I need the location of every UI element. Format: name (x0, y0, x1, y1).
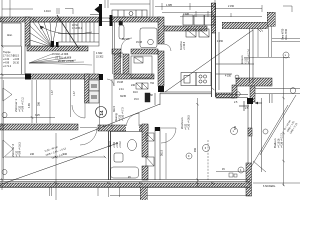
fan leader lines stairhall (29, 54, 92, 65)
wc door (121, 38, 132, 49)
svg-text:Bad: Bad (108, 141, 112, 147)
svg-text:4 150: 4 150 (225, 75, 232, 78)
svg-text:26.10: 26.10 (13, 62, 20, 65)
svg-text:4 150: 4 150 (217, 40, 224, 43)
kitchen counter top (112, 10, 147, 17)
balcony window wohnen east (247, 104, 249, 163)
bad fixtures (111, 83, 155, 178)
interior dim lines (3, 79, 300, 200)
svg-text:Essen: Essen (240, 55, 244, 64)
svg-text:2 945: 2 945 (183, 13, 190, 16)
svg-text:+4.72 +4 17.4: +4.72 +4 17.4 (248, 49, 251, 64)
svg-text:1.47: 1.47 (51, 90, 54, 95)
essen east window (249, 27, 251, 83)
top-left room (2, 23, 25, 74)
gang/wohnen wall lines (154, 93, 156, 105)
zimmer1 door (84, 103, 86, 118)
svg-text:+4.30 +4 26.5: +4.30 +4 26.5 (188, 115, 191, 130)
section marker bar (99, 4, 102, 26)
svg-text:14: 14 (99, 110, 104, 116)
wall zimmer1/zimmer2 hatched (0, 124, 78, 130)
bad east wall hatched (142, 124, 148, 157)
svg-text:4.94.0: 4.94.0 (44, 10, 51, 13)
svg-text:Balkon: Balkon (273, 138, 277, 148)
room labels (11, 41, 277, 157)
room sub-labels (16, 28, 289, 157)
svg-text:25 301 +3 N05: 25 301 +3 N05 (58, 60, 74, 63)
staircase (30, 15, 99, 49)
right side verticals (268, 26, 270, 57)
svg-text:Abst.: Abst. (7, 34, 13, 37)
zimmer2 door (80, 127, 97, 129)
wall closet nook vertical (85, 74, 90, 103)
dimension lines edges (2, 0, 300, 190)
bottom exterior wall windows (0, 179, 250, 181)
wall top-right hatched (163, 26, 207, 31)
svg-text:3.25: 3.25 (35, 114, 40, 117)
svg-text:1.47: 1.47 (73, 91, 76, 96)
long diagonals (2, 30, 253, 184)
svg-text:240: 240 (131, 84, 136, 87)
wall below wc hatched (112, 49, 121, 54)
wall stair left vertical hatched (25, 17, 30, 46)
svg-text:15 302: 15 302 (96, 56, 104, 59)
svg-text:545: 545 (234, 125, 237, 130)
balcony diagonals (251, 89, 300, 173)
top right dim chain (214, 0, 216, 10)
svg-text:Wohnen: Wohnen (180, 117, 184, 129)
wall mid horizontal (stairhall/zimmer1) (0, 74, 28, 76)
svg-text:+4.99 +4 16.3: +4.99 +4 16.3 (19, 142, 22, 157)
kueche door (164, 44, 171, 51)
kueche fixtures / essen counters (181, 15, 214, 86)
svg-text:15.08: 15.08 (117, 81, 124, 84)
small circles markers (2, 52, 296, 175)
svg-text:15.08: 15.08 (136, 41, 143, 44)
svg-text:240: 240 (118, 56, 123, 59)
svg-text:2.41: 2.41 (119, 88, 124, 91)
diagonal text zimmer2 (44, 146, 67, 160)
essen west wall vertical (211, 3, 213, 97)
shaft piers hatched (114, 54, 121, 75)
entry door (107, 79, 114, 86)
window top gap (102, 17, 110, 19)
svg-text:361.5: 361.5 (161, 149, 164, 156)
pier below bottom wall (140, 187, 147, 200)
stair section diagonal (57, 15, 79, 49)
wall below stair hatched (27, 46, 88, 51)
wall top-mid hatched (110, 17, 160, 22)
svg-text:946: 946 (194, 147, 197, 152)
stair walk line (40, 26, 92, 34)
door arcs (3, 38, 176, 158)
svg-text:2 150: 2 150 (228, 5, 235, 8)
top ticks (2, 8, 33, 10)
du room (131, 56, 152, 78)
svg-text:94.0: 94.0 (133, 91, 138, 94)
svg-text:4.85: 4.85 (28, 103, 31, 108)
pier south-east hatched (246, 163, 252, 196)
svg-text:+4.50 +4 7.0: +4.50 +4 7.0 (122, 107, 125, 121)
svg-text:946: 946 (63, 153, 68, 156)
wc room fixtures (113, 21, 158, 74)
stair text (72, 24, 83, 30)
window triangles left wall (3, 88, 12, 101)
svg-text:Zimmer 1: Zimmer 1 (14, 99, 18, 112)
dimension tick marks (1, 19, 285, 187)
level cross marker (229, 101, 262, 177)
svg-text:30/45: 30/45 (120, 95, 127, 98)
svg-text:361.5: 361.5 (113, 105, 116, 112)
svg-text:17.2/26.1: 17.2/26.1 (72, 27, 83, 30)
stair cut marks (51, 41, 54, 47)
wall kueche west vertical hatched (158, 17, 164, 44)
svg-text:Cine #700: Cine #700 (285, 28, 288, 40)
bad door (138, 113, 140, 126)
wohnen north wall (160, 91, 211, 93)
svg-text:+4.99 +4 71.2: +4.99 +4 71.2 (22, 97, 25, 112)
dim texts (28, 4, 276, 188)
svg-text:15.0: 15.0 (134, 98, 139, 101)
wohnen door (161, 127, 176, 129)
wall top-left exterior hatched (0, 17, 99, 22)
left border verticals (1, 0, 3, 190)
left text block (3, 51, 20, 68)
svg-text:+4 30.5: +4 30.5 (183, 41, 186, 50)
svg-text:Zimmer 2: Zimmer 2 (11, 144, 15, 157)
circled 14 (96, 107, 107, 118)
wohnen south window (216, 94, 248, 96)
svg-text:1.385: 1.385 (166, 4, 173, 7)
svg-text:6 SICKERL.: 6 SICKERL. (263, 185, 276, 188)
svg-text:+4 71.2: +4 71.2 (3, 65, 12, 68)
bad west wall (108, 131, 110, 180)
stepped wall essen/wohnen corner (216, 93, 234, 98)
svg-text:246: 246 (30, 153, 35, 156)
svg-text:+4 6.2: +4 6.2 (119, 141, 122, 148)
bad north wall (110, 131, 142, 133)
svg-text:Gang: Gang (114, 113, 118, 121)
svg-text:+4.36 +4 2.13: +4.36 +4 2.13 (281, 133, 284, 148)
closet boxes zimmer1 (89, 80, 99, 91)
svg-text:762: 762 (150, 82, 155, 85)
svg-text:286: 286 (38, 101, 41, 106)
